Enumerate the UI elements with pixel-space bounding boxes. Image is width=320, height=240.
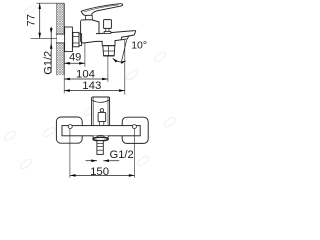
dim 143 bbox=[64, 75, 125, 93]
outlet cylinder front bbox=[97, 141, 103, 155]
svg-text:49: 49 bbox=[69, 52, 81, 64]
dimension 77 bbox=[25, 3, 64, 38]
handle front bbox=[92, 97, 110, 126]
svg-text:77: 77 bbox=[25, 14, 37, 26]
watermark bbox=[3, 4, 177, 170]
left escutcheon bbox=[56, 117, 82, 143]
diverter knob (side) bbox=[104, 20, 112, 34]
wall bbox=[56, 3, 65, 75]
svg-text:150: 150 bbox=[90, 166, 109, 178]
dim 150 bbox=[70, 129, 135, 178]
faucet body (side) bbox=[81, 20, 136, 46]
pipe centerline bbox=[31, 38, 58, 40]
svg-text:G1/2: G1/2 bbox=[42, 51, 54, 75]
body bar bbox=[62, 126, 140, 136]
spout underside front bbox=[93, 136, 109, 141]
svg-text:G1/2: G1/2 bbox=[110, 149, 134, 161]
svg-text:104: 104 bbox=[76, 68, 95, 80]
label G1/2 (outlet) bbox=[86, 149, 134, 162]
aerator (side, hatched) bbox=[102, 46, 115, 56]
right escutcheon bbox=[122, 117, 148, 143]
handle lever (side) bbox=[81, 4, 122, 21]
svg-text:143: 143 bbox=[82, 80, 101, 92]
dim 49 bbox=[64, 43, 85, 66]
escutcheon (side) bbox=[65, 27, 73, 52]
knob front bbox=[98, 109, 106, 126]
screw right bbox=[132, 125, 136, 129]
angle 10deg annotation bbox=[113, 40, 147, 95]
pipe through wall bbox=[56, 34, 65, 43]
nut bbox=[73, 32, 82, 46]
screw left bbox=[68, 125, 72, 129]
dim 104 bbox=[64, 56, 108, 82]
svg-text:10°: 10° bbox=[131, 40, 147, 52]
label G1/2 (wall connection) bbox=[42, 27, 54, 75]
